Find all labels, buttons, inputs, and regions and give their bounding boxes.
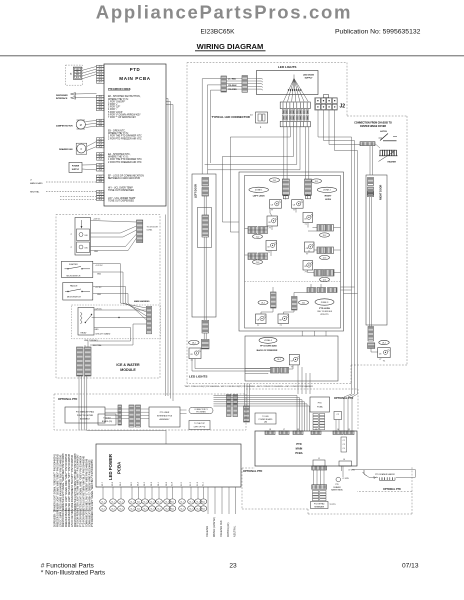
zone3 strip A [271,292,277,308]
zone1 internal wires [285,196,287,200]
wires lower pins [60,196,97,198]
wire left door to LED [203,333,205,339]
svg-text:* Non-Illustrated Parts: * Non-Illustrated Parts [41,570,106,577]
svg-text:DAMPER MOTOR: DAMPER MOTOR [56,125,73,128]
node 21-1 oval [270,178,280,182]
keypad chain wires [313,470,315,485]
svg-text:C8: C8 [271,204,273,206]
left door bottom connector [202,320,209,333]
svg-text:FREEZER PERIMETER LIGHT SIGNAL: FREEZER PERIMETER LIGHT SIGNAL WIRE *GRE… [65,453,68,527]
svg-text:31-1: 31-1 [189,501,192,503]
svg-text:INTERFACE: INTERFACE [56,97,68,100]
svg-text:31-2: 31-2 [202,508,205,510]
svg-text:GND: GND [95,329,100,331]
svg-text:ZONE 3: ZONE 3 [321,302,329,304]
svg-text:GND: GND [97,274,102,276]
svg-text:+12 DC: +12 DC [95,287,102,289]
main LED connector CN3 [280,121,310,126]
node 24-2 oval [274,357,284,361]
svg-text:31-2: 31-2 [143,508,146,510]
optional PTD enclosure 3 dashed [242,467,255,469]
wires power supply to pins [82,164,97,166]
svg-text:LED POWER: LED POWER [108,453,113,480]
svg-text:GND: GND [94,251,99,253]
heater arrow [379,152,395,162]
svg-text:* WHT 1 CONN L/DOOR(LT) P/N 53: * WHT 1 CONN L/DOOR(LT) P/N 5304498348 +… [184,386,313,388]
zone 1 oval label [249,187,269,192]
node 22-1 oval [312,179,322,183]
svg-text:PTD DRAWER FOR LIGHT SIGNAL *G: PTD DRAWER FOR LIGHT SIGNAL *GREY/BLU* P… [91,459,94,527]
svg-text:C8: C8 [268,222,270,224]
flapper microswitch S1 [62,261,93,277]
svg-text:ZONE 4: ZONE 4 [264,340,272,342]
PTD keypad box [311,502,329,509]
door switch wire cells [74,68,80,70]
svg-text:6 FOR 'V' DOWN ARROW KEY: 6 FOR 'V' DOWN ARROW KEY [108,113,141,116]
latch symbol [380,134,388,141]
dispenser interface arrows [74,93,97,96]
svg-text:WATER (120V AC): WATER (120V AC) [213,517,216,537]
wires down to module connector [90,340,131,342]
svg-text:POWER: POWER [72,166,80,168]
svg-text:SUPPLY: SUPPLY [72,169,80,171]
svg-text:DRAWER FAN: DRAWER FAN [59,148,73,151]
svg-text:22-1: 22-1 [315,181,319,183]
circuit guard dashed box [72,305,161,339]
LED feed arrow [81,220,83,228]
svg-text:PTD KEYPAD: PTD KEYPAD [314,503,325,506]
svg-text:GND: GND [97,294,102,296]
svg-text:J8: J8 [269,429,271,431]
PTD user interface box [149,407,180,427]
svg-text:C2: C2 [343,440,345,442]
svg-text:NEUTRAL: NEUTRAL [93,344,102,347]
svg-text:23: 23 [229,563,237,570]
svg-text:31-1: 31-1 [165,501,168,503]
svg-text:31-1: 31-1 [101,501,104,503]
svg-text:J1-4: J1-4 [98,199,102,201]
svg-text:MODULE: MODULE [120,368,136,372]
svg-text:RIGHT: RIGHT [325,195,332,197]
svg-text:# Functional Parts: # Functional Parts [41,563,95,570]
svg-text:31-1: 31-1 [119,501,122,503]
right door exit connector [368,343,375,349]
connector strip P1 [221,76,227,92]
svg-text:LEDS: LEDS [325,199,331,201]
svg-text:COMMUNICATION LINE LOW *LT GRE: COMMUNICATION LINE LOW *LT GREEN* WIRE P… [85,458,88,527]
svg-text:OPTIONAL PTD: OPTIONAL PTD [334,396,353,400]
svg-text:C8: C8 [257,319,259,321]
circuit guard connector [147,306,152,334]
connector row CN1 [280,102,310,109]
node 22-2 oval [320,233,330,237]
svg-text:J1: J1 [318,458,320,460]
svg-text:OPTIONAL PTD: OPTIONAL PTD [243,469,262,473]
svg-text:LT.. RED: LT.. RED [228,79,237,81]
right door box [366,175,387,325]
svg-text:2 FOR PTD FREEZER AIR NTC: 2 FOR PTD FREEZER AIR NTC [108,161,142,164]
svg-text:31-2: 31-2 [111,508,114,510]
svg-text:J2: J2 [315,429,317,431]
drawer water panel sensor [336,477,341,482]
svg-text:ASSEMBLY: ASSEMBLY [80,418,91,421]
optional PTD enclosure 1 [54,394,246,430]
svg-text:07/13: 07/13 [402,563,419,570]
optional PTD enclosure 2 dashed [246,388,358,390]
wires drawer fan to pins [87,142,97,147]
svg-text:31-1: 31-1 [171,501,174,503]
svg-text:M: M [80,124,82,127]
svg-text:TONE OUT DISPENSED: TONE OUT DISPENSED [108,190,134,192]
svg-text:ASSEMBLY: ASSEMBLY [159,418,170,421]
svg-text:31-2: 31-2 [189,508,192,510]
right door connector 2 [368,192,374,197]
svg-text:YEL: YEL [76,72,79,74]
svg-text:J3-3: J3-3 [98,169,102,171]
svg-text:31-2: 31-2 [171,508,174,510]
svg-text:31-2: 31-2 [150,508,153,510]
svg-text:FRESH FOOD PERIMETER LIGHT RET: FRESH FOOD PERIMETER LIGHT RETURN *WHT/R… [75,453,77,527]
zone 3 oval label [315,299,334,305]
zone right side wires [341,286,355,288]
svg-text:J5: J5 [348,429,350,431]
diode fan wires [283,79,294,102]
svg-text:CENTER HINGE COVER: CENTER HINGE COVER [360,126,387,128]
svg-text:23-2: 23-2 [261,302,265,304]
svg-text:HEATER: HEATER [388,160,397,163]
typical LED connector symbol [256,112,268,123]
svg-text:31-1: 31-1 [137,501,140,503]
svg-text:1 FOR THE PTD DRAWER NTC: 1 FOR THE PTD DRAWER NTC [108,135,142,138]
svg-text:C8: C8 [306,248,308,250]
svg-text:MICROSWITCH: MICROSWITCH [67,297,81,299]
svg-text:31-2: 31-2 [196,508,199,510]
connector pair 22-4 [314,270,324,277]
svg-text:J5-4: J5-4 [98,146,102,148]
svg-text:MAIN PCBA: MAIN PCBA [119,76,151,81]
heater R1 coil [380,150,382,156]
svg-text:MAIN: MAIN [296,447,303,451]
zone divider dashed [245,281,341,283]
PTD PCBA cable connector grid [313,414,318,416]
svg-text:/7: /7 [71,247,73,249]
svg-text:PTD: PTD [130,67,141,72]
LED L1 [269,200,281,209]
svg-text:J3: J3 [297,429,299,431]
svg-text:POWER BOARD: POWER BOARD [259,418,273,421]
svg-text:12V DC SUPPLY FEED WIRE MAIN H: 12V DC SUPPLY FEED WIRE MAIN HARNESS *BL… [59,454,62,527]
branch stubs up [244,384,246,407]
LED L3 [267,216,278,226]
svg-text:CIRCUIT GUARD: CIRCUIT GUARD [95,332,111,335]
svg-text:RELAY: RELAY [81,331,88,334]
drawer fan B1 [76,143,87,154]
svg-text:DRAWER: DRAWER [333,486,341,489]
svg-text:PTD WIRES: PTD WIRES [196,412,206,414]
node 22-3 oval [320,255,330,259]
wires P2 to supply box [248,77,259,79]
keypad grid connector [312,491,318,493]
svg-text:31-2: 31-2 [130,508,133,510]
LED L5 [266,241,277,251]
PTD drawer heater R2 [379,477,382,480]
zone4 connector pair [271,367,280,373]
svg-text:FF DOORS AND: FF DOORS AND [260,345,277,348]
svg-text:EA - SHORTED NTC,: EA - SHORTED NTC, [108,153,131,156]
svg-text:PTD FOR PERIMETER LIGHT RETURN: PTD FOR PERIMETER LIGHT RETURN *WHT/BLU*… [84,455,86,527]
svg-text:FREEZER DISPENSER LIGHT SIGNAL: FREEZER DISPENSER LIGHT SIGNAL WIRE *GRE… [56,453,59,527]
svg-text:PCBA: PCBA [295,451,302,455]
svg-text:/7: /7 [71,234,73,236]
right door wires [369,197,371,327]
zone3 wires [272,308,274,312]
svg-text:22-4: 22-4 [323,279,327,281]
PTD bottom top edge connectors [265,431,275,435]
main board dashed wire [46,181,97,183]
wires module down to LED power board [78,376,80,431]
svg-text:PCB/PTD KEYPAD: PCB/PTD KEYPAD [77,414,94,417]
wire hinge strip down [369,146,371,175]
zone3 LED A [256,314,267,324]
keypad connector pair [129,405,134,427]
svg-text:MAIN BOARD: MAIN BOARD [30,182,43,185]
heater arrow 2 [374,477,377,479]
svg-text:22-2: 22-2 [323,235,327,237]
svg-text:J3-3: J3-3 [98,181,102,183]
signal list underline [53,510,91,512]
ice water bottom connector [77,347,84,376]
svg-text:J7: J7 [283,429,285,431]
svg-text:21-2: 21-2 [256,236,260,238]
svg-text:LED LIGHTS: LED LIGHTS [189,375,207,379]
zone2 internal wires [307,195,309,200]
aux component block [341,437,347,452]
wires interface to connector oval [180,409,187,411]
svg-text:LINE (120V AC): LINE (120V AC) [84,339,98,342]
wires keypad to interface [105,408,129,410]
J6 connector bottom [339,461,352,466]
svg-text:C8: C8 [304,218,306,220]
LED L4 [303,213,313,223]
LED D1 [77,229,90,241]
svg-text:21-3: 21-3 [256,262,260,264]
svg-text:BETWEEN UI AND MAIN PCB: BETWEEN UI AND MAIN PCB [108,177,140,180]
header rule [0,55,464,57]
node 21-2 oval [253,234,263,238]
connector pair 21-3 [248,253,257,260]
svg-text:DISPENSER / DRAWER LIGHT SIGNA: DISPENSER / DRAWER LIGHT SIGNAL *GREY/WH… [54,453,57,527]
svg-text:31-2: 31-2 [119,508,122,510]
svg-text:C4: C4 [343,448,345,450]
keypad chain connector 1 [312,466,327,470]
svg-text:31-2: 31-2 [101,508,104,510]
svg-text:31-1: 31-1 [150,501,153,503]
svg-text:PTD: PTD [318,403,323,405]
svg-text:(J8): (J8) [264,422,267,424]
wires LED assembly to J10 [91,221,137,223]
wires P1 to P2 [227,77,243,79]
zone assembly inner box [245,176,341,329]
svg-text:J2-6: J2-6 [98,109,102,111]
svg-text:OPTIONAL PTD: OPTIONAL PTD [383,488,401,491]
svg-text:PTD USER: PTD USER [160,412,170,414]
svg-text:MEMBRANE: MEMBRANE [314,505,325,508]
zone assembly outer box [239,172,344,331]
svg-text:LEFT OF PTD: LEFT OF PTD [194,426,206,428]
left door wires [203,196,205,215]
svg-text:31-2: 31-2 [157,508,160,510]
PTD keypad assembly box [65,407,105,423]
PTD main PCBA U1 box [104,64,166,206]
svg-text:C8: C8 [190,354,192,356]
zone1 connector strip [282,179,289,195]
svg-text:CONN.: CONN. [147,230,153,232]
svg-text:SUPPLY: SUPPLY [305,77,313,79]
wire bend to LED power pcba [87,430,166,432]
svg-text:EI23BC65K: EI23BC65K [201,29,236,36]
svg-text:Publication No: 5995635132: Publication No: 5995635132 [335,29,421,36]
svg-text:EF - LOSS OF COMMUNICATION: EF - LOSS OF COMMUNICATION [108,175,144,178]
zone 4 oval label [259,337,277,343]
to LED power board label box [255,413,276,424]
zone3 strip B [292,297,298,311]
svg-text:J7-7: J7-7 [98,82,102,84]
svg-text:C8: C8 [379,353,381,355]
svg-text:TO PTD: TO PTD [330,504,337,506]
svg-text:J6: J6 [337,429,339,431]
svg-text:24-2: 24-2 [277,359,281,361]
title underline [195,50,266,52]
svg-text:31-1: 31-1 [157,501,160,503]
svg-text:PTD DRAWER HEATER: PTD DRAWER HEATER [375,473,395,476]
svg-text:WITH PTD: WITH PTD [320,314,329,316]
bundle connector A [227,395,232,417]
bundle branch connector [244,406,250,422]
wire heater to strip [375,144,380,148]
svg-text:LT GRN: LT GRN [343,478,350,480]
svg-text:TYPICAL LED CONNECTOR: TYPICAL LED CONNECTOR [212,115,251,119]
svg-text:FLAPPER: FLAPPER [69,263,78,266]
node 23-1 oval [299,300,309,304]
C2 wires [335,420,337,432]
svg-text:C8: C8 [293,204,295,206]
PTD main PCBA bottom box [255,431,357,466]
left door drop wires [201,79,203,174]
node 28-1 oval [189,340,199,344]
svg-text:J6: J6 [343,459,345,461]
connector pair 22-2 [317,225,325,232]
left door top connector [202,178,209,187]
svg-text:23-1: 23-1 [302,302,306,304]
keypad connector strip [118,405,122,425]
PTD PCBA box [310,397,330,412]
power supply PS1 [69,162,82,172]
connector J2 grid [316,98,321,103]
svg-text:DISPENSER: DISPENSER [56,95,68,97]
svg-text:PCBA: PCBA [117,462,122,474]
channel wires PTD to optional ptd [166,98,168,100]
svg-text:31-1: 31-1 [196,501,199,503]
left door inner box [197,208,211,248]
svg-text:31-1: 31-1 [111,501,114,503]
svg-text:31-1: 31-1 [202,501,205,503]
svg-text:BACK OF FREEZER: BACK OF FREEZER [257,349,278,352]
svg-text:ZONE 1: ZONE 1 [255,190,263,192]
svg-text:LED DIODE: LED DIODE [303,74,315,76]
heater loop wires [352,469,415,471]
svg-text:WIRING DIAGRAM: WIRING DIAGRAM [197,42,264,51]
svg-text:FREEZER FAN: FREEZER FAN [220,520,223,537]
wires P1 left to door drops [202,78,221,80]
svg-text:FREEZER PERIMETER LIGHT RETURN: FREEZER PERIMETER LIGHT RETURN WIRE *WHT… [69,453,71,527]
LED power wire code ovals [100,499,107,504]
svg-text:C2: C2 [337,414,339,416]
svg-text:31-1: 31-1 [143,501,146,503]
svg-text:31-2: 31-2 [137,508,140,510]
wire drops from CN3 [283,126,285,179]
svg-text:+12V DC: +12V DC [95,265,103,267]
svg-text:NEUTRAL: NEUTRAL [30,191,40,194]
keypad chain connector 2 [312,485,327,490]
left door inner connector [202,215,209,237]
zone3 LED B [278,314,289,324]
hinge connector strip [360,142,375,146]
svg-text:29-1: 29-1 [382,342,386,344]
node 21-3 oval [253,260,263,264]
node 29-1 oval [379,340,389,344]
svg-text:J2: J2 [340,104,346,110]
svg-text:FRESH FOOD PERIMETER LIGHT SIG: FRESH FOOD PERIMETER LIGHT SIGNAL *GREY/… [62,453,65,527]
svg-text:31-1: 31-1 [180,501,183,503]
svg-text:AppliancePartsPros.com: AppliancePartsPros.com [96,2,352,23]
zone4 wires [289,368,294,370]
svg-text:PCBA: PCBA [317,406,323,409]
svg-text:ICE & WATER: ICE & WATER [116,363,140,367]
svg-text:FF DOOR PERIMETER LIGHT RETURN: FF DOOR PERIMETER LIGHT RETURN WIRE *WHT… [78,454,80,527]
svg-text:+12V DC: +12V DC [93,219,101,221]
door switch connector block [66,65,83,85]
LED D2 [77,242,90,253]
zone3 connector row [307,288,316,293]
svg-text:28-1: 28-1 [192,342,196,344]
LED lights enclosure dashed boundary [187,62,347,64]
svg-text:INTERFACE PCB: INTERFACE PCB [157,415,173,418]
svg-text:MAIN HARNESS: MAIN HARNESS [134,300,150,303]
svg-text:PTD: PTD [296,442,301,446]
left door exit connector [201,339,209,349]
svg-text:31-1: 31-1 [130,501,133,503]
C2 box [334,412,342,420]
svg-text:PTD MAIN (KEYPAD): PTD MAIN (KEYPAD) [76,411,95,414]
svg-text:C8: C8 [267,246,269,248]
zone 2 oval label [317,187,337,192]
optional PTD wire bundle [214,395,298,397]
wires relay to connector [94,309,147,311]
svg-text:C8: C8 [291,361,293,363]
neutral dashed wire [46,191,97,193]
svg-text:J5-3: J5-3 [98,159,102,161]
svg-text:TO LED: TO LED [262,416,269,418]
ice and water module dashed enclosure [56,215,160,379]
wires left LED to zone 4 [194,359,196,369]
connector pair 21-2 [248,227,257,234]
node 22-4 oval [320,277,330,281]
svg-text:ONLY ON MODELS: ONLY ON MODELS [317,311,333,313]
paddle microswitch S2 [63,283,93,301]
damper motor M1 [76,120,85,129]
toggle board box [98,414,116,425]
svg-text:PTD FOR PERIMETER LIGHT SIGNAL: PTD FOR PERIMETER LIGHT SIGNAL WIRE *GRE… [80,455,83,527]
